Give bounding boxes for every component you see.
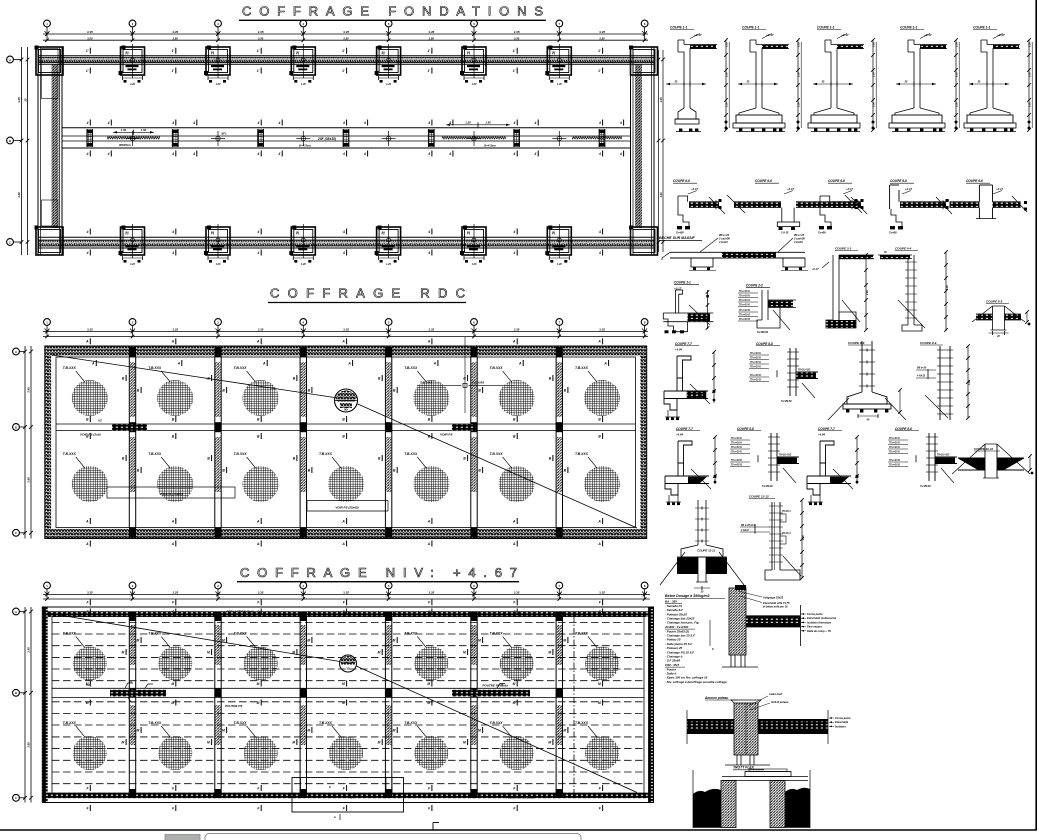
svg-text:1': 1' xyxy=(257,69,260,73)
svg-text:3.50: 3.50 xyxy=(429,36,435,40)
svg-text:3.35: 3.35 xyxy=(343,30,349,34)
svg-text:4: 4 xyxy=(427,251,430,255)
svg-text:4: 4 xyxy=(534,121,537,125)
svg-text:T8 e=20 H: T8 e=20 H xyxy=(889,443,900,445)
svg-text:VOIR PS (25x65): VOIR PS (25x65) xyxy=(159,492,182,496)
svg-text:3.35: 3.35 xyxy=(599,328,605,332)
svg-text:Ta=Ø8,60: Ta=Ø8,60 xyxy=(762,485,773,488)
svg-text:M: M xyxy=(548,650,551,654)
svg-text:3.45: 3.45 xyxy=(659,97,663,103)
svg-text:1.20: 1.20 xyxy=(386,83,391,86)
svg-text:T.B.XXX: T.B.XXX xyxy=(490,366,504,370)
svg-text:4: 4 xyxy=(619,121,622,125)
svg-text:1.50: 1.50 xyxy=(465,120,471,124)
svg-text:3.35: 3.35 xyxy=(258,328,264,332)
svg-text:COUPE 5-5: COUPE 5-5 xyxy=(986,300,1003,304)
svg-text:T.B.XXX: T.B.XXX xyxy=(63,452,77,456)
svg-text:4: 4 xyxy=(86,152,89,156)
svg-text:T8 e=20 H: T8 e=20 H xyxy=(750,362,761,364)
svg-text:M: M xyxy=(563,638,566,642)
svg-text:- Niv. coffrage à décoffrage p: - Niv. coffrage à décoffrage possible co… xyxy=(665,680,727,684)
svg-text:VOIR PS: VOIR PS xyxy=(440,433,453,437)
svg-text:P1: P1 xyxy=(382,231,386,235)
svg-text:PRELACTION (2x6): PRELACTION (2x6) xyxy=(506,796,533,800)
svg-text:0.50: 0.50 xyxy=(956,102,959,107)
svg-text:T8 e=20 H: T8 e=20 H xyxy=(739,305,750,307)
svg-text:1': 1' xyxy=(171,69,174,73)
svg-text:4: 4 xyxy=(363,152,366,156)
svg-text:4: 4 xyxy=(427,230,430,234)
svg-text:+4.84: +4.84 xyxy=(676,433,684,437)
svg-text:0.50: 0.50 xyxy=(1029,102,1032,107)
svg-text:POUTRE PS (2x6): POUTRE PS (2x6) xyxy=(482,684,507,688)
svg-text:4: 4 xyxy=(448,152,451,156)
svg-text:T.B.XXX: T.B.XXX xyxy=(234,366,248,370)
svg-text:A: A xyxy=(9,58,11,62)
svg-text:4: 4 xyxy=(86,251,89,255)
svg-text:M: M xyxy=(478,728,481,732)
svg-text:1.20: 1.20 xyxy=(472,263,477,266)
svg-text:M: M xyxy=(427,701,430,705)
svg-text:T8=20,4 BC: T8=20,4 BC xyxy=(779,454,792,457)
svg-text:4: 4 xyxy=(192,121,195,125)
svg-text:COUPE 3-3: COUPE 3-3 xyxy=(835,247,852,251)
svg-text:POUTRE PS: POUTRE PS xyxy=(225,704,242,708)
svg-text:+0.17: +0.17 xyxy=(905,187,913,191)
svg-text:1': 1' xyxy=(427,69,430,73)
svg-text:P1: P1 xyxy=(126,51,130,55)
svg-text:M: M xyxy=(342,682,345,686)
svg-text:3.35: 3.35 xyxy=(172,328,178,332)
svg-text:4: 4 xyxy=(107,152,110,156)
svg-text:M: M xyxy=(171,682,174,686)
svg-text:et béton añfé per 16: et béton añfé per 16 xyxy=(763,605,788,609)
svg-text:T8 e=20 H: T8 e=20 H xyxy=(731,447,742,449)
svg-text:Forme pente: Forme pente xyxy=(807,612,823,616)
svg-text:cadre neuf: cadre neuf xyxy=(769,692,783,696)
svg-text:4: 4 xyxy=(171,152,174,156)
svg-text:T.B.XXX: T.B.XXX xyxy=(575,632,589,636)
svg-text:T8 e=20 B: T8 e=20 B xyxy=(750,375,761,377)
svg-text:M: M xyxy=(292,740,295,744)
svg-text:T8 e=20 H: T8 e=20 H xyxy=(750,353,761,355)
svg-text:M: M xyxy=(137,728,140,732)
svg-text:0.50: 0.50 xyxy=(873,72,876,77)
svg-text:2: 2 xyxy=(350,796,353,800)
svg-text:T.B.XXX: T.B.XXX xyxy=(234,632,248,636)
svg-text:M: M xyxy=(598,701,601,705)
svg-text:3.35: 3.35 xyxy=(428,328,434,332)
svg-text:COUPE 6-6: COUPE 6-6 xyxy=(890,179,907,183)
svg-text:1': 1' xyxy=(598,69,601,73)
svg-text:Voligeage 25x25: Voligeage 25x25 xyxy=(763,596,784,600)
svg-text:3.45: 3.45 xyxy=(27,387,31,393)
svg-text:1': 1' xyxy=(171,49,174,53)
svg-text:M: M xyxy=(393,728,396,732)
svg-text:T.B.XXX: T.B.XXX xyxy=(575,452,589,456)
svg-text:Ø8 e=20: Ø8 e=20 xyxy=(917,367,927,370)
svg-text:M: M xyxy=(598,682,601,686)
svg-text:A: A xyxy=(15,610,17,614)
svg-text:Béton Dosage à 350kg/m3: Béton Dosage à 350kg/m3 xyxy=(665,594,710,598)
svg-text:4: 4 xyxy=(342,121,345,125)
svg-text:4: 4 xyxy=(257,152,260,156)
svg-text:0.50: 0.50 xyxy=(798,42,801,47)
svg-text:Ta=Ø8,60: Ta=Ø8,60 xyxy=(781,400,792,403)
svg-text:0.50: 0.50 xyxy=(873,42,876,47)
svg-text:Ø8/25cm: Ø8/25cm xyxy=(119,143,131,147)
svg-text:4: 4 xyxy=(619,152,622,156)
svg-text:V2: V2 xyxy=(129,680,133,684)
svg-text:ACIER : Fe E400: ACIER : Fe E400 xyxy=(664,625,689,629)
svg-text:1.50: 1.50 xyxy=(141,128,147,132)
svg-text:3.60: 3.60 xyxy=(17,192,21,198)
svg-text:C: C xyxy=(9,240,11,244)
svg-text:3.06: 3.06 xyxy=(968,380,971,385)
svg-text:Etanchéité multicouche: Etanchéité multicouche xyxy=(807,616,837,620)
svg-text:4: 4 xyxy=(278,152,281,156)
svg-text:+0.17: +0.17 xyxy=(846,187,854,191)
svg-text:T.B.XXX: T.B.XXX xyxy=(404,632,418,636)
svg-text:1.20: 1.20 xyxy=(130,83,135,86)
svg-text:P1: P1 xyxy=(296,231,300,235)
svg-text:T.B.XXX: T.B.XXX xyxy=(63,632,77,636)
svg-text:B=4.5cm: B=4.5cm xyxy=(299,144,311,148)
svg-text:T8 e=20 B: T8 e=20 B xyxy=(739,315,750,317)
svg-text:3.35: 3.35 xyxy=(514,591,520,595)
svg-text:4: 4 xyxy=(427,152,430,156)
svg-text:1.20: 1.20 xyxy=(216,263,221,266)
svg-text:4: 4 xyxy=(192,152,195,156)
svg-text:P1: P1 xyxy=(552,231,556,235)
svg-text:4: 4 xyxy=(257,251,260,255)
svg-text:1': 1' xyxy=(427,49,430,53)
svg-text:4: 4 xyxy=(598,251,601,255)
svg-text:T.B.XXX: T.B.XXX xyxy=(575,721,589,725)
svg-text:1': 1' xyxy=(86,69,89,73)
svg-text:A: A xyxy=(597,519,601,523)
svg-text:P1: P1 xyxy=(211,231,215,235)
svg-text:4: 4 xyxy=(171,230,174,234)
svg-text:Ta=Ø8: Ta=Ø8 xyxy=(676,232,684,235)
svg-text:0.50: 0.50 xyxy=(956,72,959,77)
svg-text:4: 4 xyxy=(513,251,516,255)
svg-text:Ta=Ø8,60: Ta=Ø8,60 xyxy=(920,485,931,488)
svg-text:Isolation thermique: Isolation thermique xyxy=(807,620,831,624)
svg-text:P1: P1 xyxy=(382,51,386,55)
svg-text:T.B.XXX: T.B.XXX xyxy=(575,366,589,370)
svg-text:COUPE 6-6: COUPE 6-6 xyxy=(673,179,690,183)
svg-text:4: 4 xyxy=(171,251,174,255)
svg-text:A: A xyxy=(341,542,345,546)
svg-text:T8=20,4: T8=20,4 xyxy=(782,510,791,513)
svg-text:COUPE 4-4: COUPE 4-4 xyxy=(895,247,912,251)
svg-text:T.B.XXX: T.B.XXX xyxy=(63,366,77,370)
svg-text:4: 4 xyxy=(448,121,451,125)
svg-text:N5: N5 xyxy=(344,408,348,412)
svg-text:4: 4 xyxy=(598,152,601,156)
svg-text:1.50: 1.50 xyxy=(121,128,127,132)
svg-text:+4.84: +4.84 xyxy=(675,348,683,352)
svg-text:3.60: 3.60 xyxy=(27,742,31,748)
svg-text:4 HA12: 4 HA12 xyxy=(916,375,926,378)
svg-text:C: C xyxy=(15,531,17,535)
svg-text:M: M xyxy=(378,740,381,744)
svg-text:M: M xyxy=(463,740,466,744)
svg-text:3.45: 3.45 xyxy=(17,97,21,103)
svg-text:COUPE 1-1: COUPE 1-1 xyxy=(973,26,991,30)
svg-text:1.50: 1.50 xyxy=(485,120,491,124)
svg-text:M: M xyxy=(513,682,516,686)
svg-text:3.60: 3.60 xyxy=(659,192,663,198)
svg-text:M: M xyxy=(257,682,260,686)
svg-text:4: 4 xyxy=(513,152,516,156)
svg-text:T.B.XXX: T.B.XXX xyxy=(404,721,418,725)
svg-text:3.35: 3.35 xyxy=(514,30,520,34)
svg-text:M: M xyxy=(222,638,225,642)
svg-text:T8 e=20 B: T8 e=20 B xyxy=(750,380,761,382)
svg-text:M: M xyxy=(307,728,310,732)
svg-text:4: 4 xyxy=(513,121,516,125)
svg-text:+0.17: +0.17 xyxy=(691,187,699,191)
svg-text:SF1: SF1 xyxy=(221,132,227,136)
svg-text:3.06: 3.06 xyxy=(946,285,949,290)
svg-text:A: A xyxy=(603,361,607,365)
svg-text:Ø8 e=20: Ø8 e=20 xyxy=(719,233,730,237)
svg-text:3.35: 3.35 xyxy=(258,591,264,595)
svg-text:Etanchéité: Etanchéité xyxy=(835,720,849,724)
svg-text:M: M xyxy=(207,650,210,654)
svg-text:P1: P1 xyxy=(467,231,471,235)
svg-text:1.20: 1.20 xyxy=(216,83,221,86)
svg-text:T8 e=20 B: T8 e=20 B xyxy=(889,465,900,467)
svg-text:M: M xyxy=(307,638,310,642)
svg-text:T8 e=20 H: T8 e=20 H xyxy=(889,447,900,449)
svg-text:4: 4 xyxy=(86,230,89,234)
svg-text:T8 e=20 H: T8 e=20 H xyxy=(739,300,750,302)
svg-text:T8 e=20 H: T8 e=20 H xyxy=(731,438,742,440)
svg-text:3.35: 3.35 xyxy=(172,591,178,595)
svg-text:P1: P1 xyxy=(211,51,215,55)
svg-text:+0.17: +0.17 xyxy=(841,33,849,37)
svg-text:PRELACTION (2x6): PRELACTION (2x6) xyxy=(226,610,253,614)
svg-text:T8 e=20 H: T8 e=20 H xyxy=(731,443,742,445)
svg-text:P1: P1 xyxy=(467,51,471,55)
svg-text:A: A xyxy=(597,340,601,344)
svg-text:M: M xyxy=(478,638,481,642)
svg-text:T8=20,4 BC: T8=20,4 BC xyxy=(937,454,950,457)
svg-text:0.50: 0.50 xyxy=(798,102,801,107)
svg-text:V2: V2 xyxy=(98,419,102,423)
svg-text:4: 4 xyxy=(278,121,281,125)
svg-text:0.50: 0.50 xyxy=(1029,42,1032,47)
svg-text:4: 4 xyxy=(257,230,260,234)
svg-text:3.35: 3.35 xyxy=(428,591,434,595)
svg-text:Ta=Ø8: Ta=Ø8 xyxy=(818,232,826,235)
svg-text:4: 4 xyxy=(342,230,345,234)
svg-text:T.S. HA8: T.S. HA8 xyxy=(472,380,484,384)
svg-text:M: M xyxy=(548,740,551,744)
svg-text:T.B.XXX: T.B.XXX xyxy=(234,452,248,456)
svg-text:COUPE 10-10: COUPE 10-10 xyxy=(974,447,994,451)
svg-text:3.35: 3.35 xyxy=(87,591,93,595)
svg-text:M: M xyxy=(463,650,466,654)
svg-text:0.50: 0.50 xyxy=(798,72,801,77)
svg-text:0.50: 0.50 xyxy=(1029,72,1032,77)
svg-text:T.B.XXX: T.B.XXX xyxy=(319,452,333,456)
svg-text:3.35: 3.35 xyxy=(343,591,349,595)
svg-text:Pare vapeur: Pare vapeur xyxy=(807,625,823,629)
svg-text:25F (35x35): 25F (35x35) xyxy=(317,137,336,141)
svg-text:P1: P1 xyxy=(552,51,556,55)
svg-text:T.B.XXX: T.B.XXX xyxy=(490,452,504,456)
svg-text:4 HA10: 4 HA10 xyxy=(718,240,728,244)
svg-text:A: A xyxy=(347,361,351,365)
svg-text:T.B.XXX: T.B.XXX xyxy=(148,721,162,725)
svg-text:Ta=Ø8: Ta=Ø8 xyxy=(889,232,897,235)
svg-text:P1: P1 xyxy=(296,51,300,55)
svg-text:3.35: 3.35 xyxy=(343,328,349,332)
svg-text:T8 e=20 H: T8 e=20 H xyxy=(889,452,900,454)
svg-text:1': 1' xyxy=(513,69,516,73)
svg-text:1': 1' xyxy=(257,49,260,53)
svg-text:VOIR PS (25x65): VOIR PS (25x65) xyxy=(335,506,358,510)
svg-text:4: 4 xyxy=(342,251,345,255)
svg-text:1-8-15: 1-8-15 xyxy=(781,232,789,235)
svg-text:B: B xyxy=(9,139,11,143)
svg-text:1.20: 1.20 xyxy=(386,263,391,266)
svg-text:CIM : 45,5: CIM : 45,5 xyxy=(665,663,679,667)
svg-text:T.S. HA8: T.S. HA8 xyxy=(420,380,432,384)
svg-text:M: M xyxy=(86,701,89,705)
svg-text:3.35: 3.35 xyxy=(258,30,264,34)
svg-text:1.20: 1.20 xyxy=(301,263,306,266)
svg-text:2 cad Ø6: 2 cad Ø6 xyxy=(718,237,730,241)
svg-text:T8 e=20 H: T8 e=20 H xyxy=(739,296,750,298)
svg-text:4: 4 xyxy=(171,121,174,125)
svg-text:25: 25 xyxy=(24,98,28,102)
svg-text:Ø8 e=20: Ø8 e=20 xyxy=(794,233,805,237)
svg-text:T.B.XXX: T.B.XXX xyxy=(148,632,162,636)
svg-text:M: M xyxy=(427,682,430,686)
svg-text:T8 e=20 H: T8 e=20 H xyxy=(750,367,761,369)
svg-text:Dalle de comp + TS: Dalle de comp + TS xyxy=(807,629,831,633)
svg-text:1': 1' xyxy=(598,49,601,53)
svg-text:3.35: 3.35 xyxy=(428,30,434,34)
svg-text:BECHE SUR MASSIF: BECHE SUR MASSIF xyxy=(659,236,696,240)
svg-text:3.06: 3.06 xyxy=(802,535,805,540)
svg-text:B: B xyxy=(15,425,17,429)
svg-text:M: M xyxy=(257,701,260,705)
svg-text:3.35: 3.35 xyxy=(87,30,93,34)
svg-text:4HA12 poteau: 4HA12 poteau xyxy=(770,700,789,704)
svg-text:T.B.XXX: T.B.XXX xyxy=(319,721,333,725)
svg-text:4: 4 xyxy=(86,121,89,125)
svg-text:T8 e=20 B: T8 e=20 B xyxy=(889,460,900,462)
svg-text:3.45: 3.45 xyxy=(27,647,31,653)
svg-text:3.50: 3.50 xyxy=(172,36,178,40)
svg-text:3.35: 3.35 xyxy=(87,328,93,332)
svg-text:3.60: 3.60 xyxy=(27,477,31,483)
svg-text:M: M xyxy=(122,650,125,654)
svg-text:T.B.XXX: T.B.XXX xyxy=(490,721,504,725)
svg-text:3.35: 3.35 xyxy=(599,30,605,34)
svg-text:0.50: 0.50 xyxy=(726,72,729,77)
svg-text:3.50: 3.50 xyxy=(514,36,520,40)
svg-text:COUPE 6-6: COUPE 6-6 xyxy=(966,179,983,183)
svg-text:A: A xyxy=(341,519,345,523)
svg-text:T.B.XXX: T.B.XXX xyxy=(234,721,248,725)
svg-text:4: 4 xyxy=(598,230,601,234)
svg-text:Ø8 e=20 (2x6): Ø8 e=20 (2x6) xyxy=(741,525,756,527)
svg-text:T8 e=20 H: T8 e=20 H xyxy=(750,358,761,360)
svg-text:T.B.XXX: T.B.XXX xyxy=(490,632,504,636)
svg-text:COUPE 12-12: COUPE 12-12 xyxy=(749,495,769,499)
svg-text:B: B xyxy=(15,691,17,695)
svg-text:T8 e=20 B: T8 e=20 B xyxy=(739,310,750,312)
svg-text:M: M xyxy=(86,682,89,686)
svg-text:T.B.XXX: T.B.XXX xyxy=(148,452,162,456)
svg-text:M: M xyxy=(563,728,566,732)
svg-text:+0.17: +0.17 xyxy=(812,267,819,271)
svg-text:COUPE 6-6: COUPE 6-6 xyxy=(828,179,845,183)
svg-text:T8=20,4 BC: T8=20,4 BC xyxy=(798,369,811,372)
svg-text:4 HA12: 4 HA12 xyxy=(740,529,750,532)
svg-text:4: 4 xyxy=(342,152,345,156)
svg-text:1': 1' xyxy=(342,49,345,53)
svg-text:3.50: 3.50 xyxy=(599,36,605,40)
svg-text:M: M xyxy=(137,638,140,642)
svg-text:COUPE 9-9: COUPE 9-9 xyxy=(920,341,937,345)
svg-text:+0.17: +0.17 xyxy=(694,33,702,37)
svg-text:0.50: 0.50 xyxy=(726,102,729,107)
svg-text:3.35: 3.35 xyxy=(172,30,178,34)
svg-text:COUPE 1-1: COUPE 1-1 xyxy=(900,26,918,30)
svg-text:M: M xyxy=(393,638,396,642)
svg-text:C: C xyxy=(15,796,17,800)
svg-text:Etanchéité añfé 74,75: Etanchéité añfé 74,75 xyxy=(763,601,790,605)
svg-text:M: M xyxy=(292,650,295,654)
svg-text:1.20: 1.20 xyxy=(301,83,306,86)
svg-text:0.50: 0.50 xyxy=(726,42,729,47)
svg-text:3.50: 3.50 xyxy=(258,36,264,40)
svg-text:3.35: 3.35 xyxy=(599,591,605,595)
svg-text:0.50: 0.50 xyxy=(873,102,876,107)
svg-text:0.50: 0.50 xyxy=(956,42,959,47)
svg-text:1': 1' xyxy=(513,49,516,53)
svg-text:4: 4 xyxy=(598,121,601,125)
svg-text:3.50: 3.50 xyxy=(343,36,349,40)
svg-text:T.B.XXX: T.B.XXX xyxy=(404,452,418,456)
svg-text:A: A xyxy=(341,340,345,344)
svg-text:Amorce poteau: Amorce poteau xyxy=(704,696,728,700)
svg-text:COUPE 2-2: COUPE 2-2 xyxy=(746,284,763,288)
svg-text:BA : 350: BA : 350 xyxy=(665,600,677,604)
svg-text:M: M xyxy=(171,701,174,705)
svg-text:2.80: 2.80 xyxy=(866,290,869,296)
svg-text:M: M xyxy=(122,740,125,744)
svg-text:COUPE 1-1: COUPE 1-1 xyxy=(674,281,691,285)
svg-text:T8 e=20 B: T8 e=20 B xyxy=(731,460,742,462)
svg-text:2 cad Ø6: 2 cad Ø6 xyxy=(793,237,805,241)
svg-text:COUPE 1-1: COUPE 1-1 xyxy=(742,26,760,30)
svg-text:4: 4 xyxy=(363,121,366,125)
svg-text:Isolation: Isolation xyxy=(835,724,846,728)
svg-text:A: A xyxy=(15,350,17,354)
svg-text:1.20: 1.20 xyxy=(557,263,562,266)
svg-text:1.20: 1.20 xyxy=(557,83,562,86)
svg-text:COUPE 6-6: COUPE 6-6 xyxy=(755,179,772,183)
